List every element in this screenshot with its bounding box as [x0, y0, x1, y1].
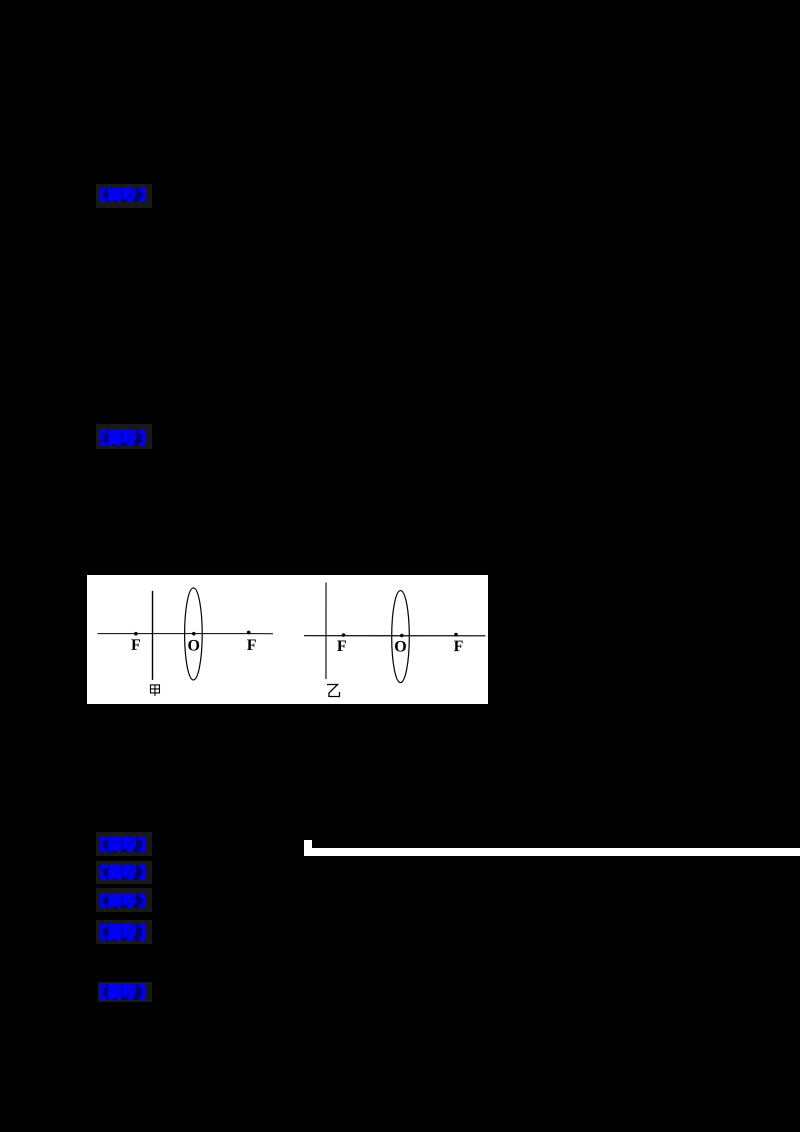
svg-text:O: O: [394, 639, 406, 656]
left dot O: [192, 632, 196, 636]
blue label 1 (answer tag): [100, 188, 147, 202]
left dot F1: [134, 632, 138, 636]
left principal axis: [98, 633, 273, 635]
svg-text:F: F: [454, 638, 464, 655]
left dot F2: [247, 631, 251, 635]
svg-text:F: F: [131, 637, 141, 654]
svg-text:F: F: [247, 637, 257, 654]
white underline nub: [304, 840, 312, 856]
right principal axis: [304, 635, 486, 637]
blue label 2 (analysis tag): [100, 430, 147, 446]
left lens ellipse: [185, 588, 203, 680]
label highlight box 2: [96, 424, 152, 449]
left vertical line: [151, 591, 153, 680]
figure: lens diagram panel: [87, 575, 488, 704]
label highlight box 3: [96, 832, 152, 856]
right vertical line: [325, 583, 327, 679]
right dot O: [400, 634, 404, 638]
label highlight box 5: [96, 888, 152, 912]
white underline bar: [312, 848, 800, 856]
label highlight box 6: [96, 920, 152, 944]
svg-text:O: O: [188, 637, 200, 654]
label highlight box 4: [96, 861, 152, 884]
right lens ellipse: [392, 591, 410, 683]
blue label 3 (kaodian tag): [100, 837, 147, 852]
label highlight box 7: [98, 982, 152, 1002]
yi character (乙): [327, 685, 340, 697]
label highlight box 1: [96, 184, 152, 208]
blue label 5 (fenxi tag): [100, 894, 147, 908]
blue label 7 (dianping tag): [100, 984, 147, 1000]
jia character (甲): [150, 685, 159, 696]
right dot F1: [342, 633, 346, 637]
svg-text:F: F: [337, 638, 347, 655]
right dot F2: [454, 633, 458, 637]
blue label 6 (jieda tag): [100, 924, 147, 941]
blue label 4 (zhuanti tag): [100, 865, 147, 880]
